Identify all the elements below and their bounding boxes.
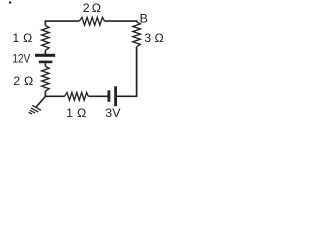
wire bottom-left junction to 1Ω resistor: [45, 91, 64, 96]
ground hatch line 3: [30, 110, 35, 113]
svg-text:Ω: Ω: [24, 74, 33, 88]
battery 12V negative plate (short, bottom): [39, 61, 53, 64]
resistor 1Ω (bottom rail): [65, 92, 89, 100]
wire top-left corner (left column top to top rail): [45, 21, 79, 25]
dot artifact top-left: [9, 1, 11, 3]
wire right side down and bottom-right corner: [117, 47, 137, 97]
svg-text:3: 3: [144, 31, 151, 45]
wire top rail right segment and top-right corner: [105, 20, 137, 23]
svg-text:B: B: [140, 11, 148, 25]
svg-text:2: 2: [83, 1, 90, 15]
ground hatch line 4 (shortest): [29, 112, 32, 114]
svg-text:3V: 3V: [105, 106, 121, 120]
wire 1Ω resistor to battery 12V positive plate: [44, 50, 46, 54]
svg-text:Ω: Ω: [92, 1, 101, 15]
resistor 2Ω (left side lower): [42, 66, 50, 91]
svg-text:12V: 12V: [12, 51, 30, 65]
wire battery 12V negative plate to 2Ω resistor: [44, 63, 46, 66]
svg-text:2: 2: [13, 74, 20, 88]
svg-text:Ω: Ω: [155, 31, 164, 45]
wire ground stem (diagonal from bottom-left junction): [36, 96, 45, 107]
resistor 1Ω (left side upper): [42, 26, 50, 51]
resistor 3Ω (right side): [133, 22, 141, 47]
battery 12V positive plate (long, top): [35, 54, 55, 57]
battery 3V long plate (right): [114, 86, 117, 106]
ground hatch line 1 (longest): [32, 105, 41, 110]
svg-text:Ω: Ω: [23, 31, 32, 45]
svg-text:Ω: Ω: [77, 106, 86, 120]
ground hatch line 2: [31, 108, 38, 112]
svg-text:1: 1: [66, 106, 73, 120]
svg-text:1: 1: [12, 31, 19, 45]
battery 3V short plate (left): [108, 90, 111, 102]
wire bottom rail between 1Ω resistor and 3V battery: [88, 95, 107, 97]
resistor 2Ω (top rail): [79, 17, 104, 25]
